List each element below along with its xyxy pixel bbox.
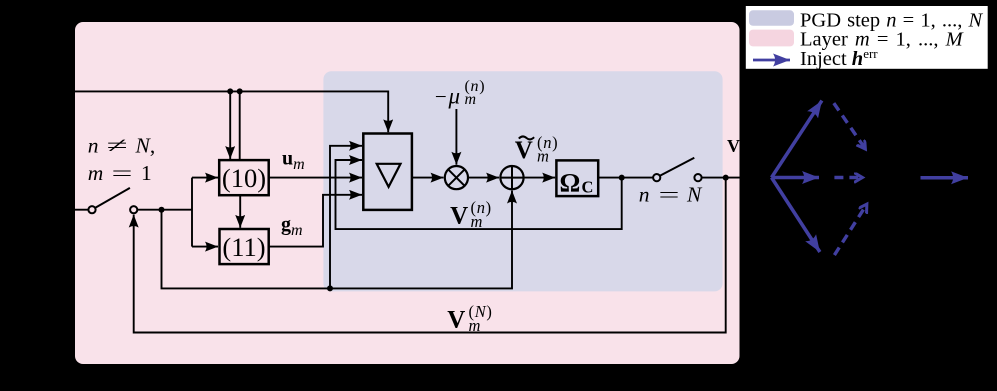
svg-text:n: n	[639, 182, 650, 206]
multiplier (x)	[445, 166, 468, 189]
blue fan: solid arrow mid	[772, 176, 820, 180]
svg-text:m: m	[88, 161, 104, 185]
svg-text:V: V	[515, 137, 533, 164]
wire: drop to (10) top plain	[239, 91, 241, 160]
svg-text:=: =	[659, 182, 680, 206]
svg-text:=: =	[112, 161, 133, 185]
svg-text:N,: N,	[135, 134, 156, 158]
nabla symbol	[377, 164, 401, 187]
blue fan: solid arrow down	[772, 178, 820, 253]
svg-text:V: V	[447, 307, 465, 334]
layer box (pink, Layer m=1..M)	[75, 22, 740, 364]
svg-text:≠: ≠	[107, 134, 128, 158]
wire: bottom feedback into nabla input 1	[330, 146, 362, 289]
node: output junction	[723, 175, 729, 181]
block (10)	[219, 160, 269, 195]
wire: output of switch S2	[702, 177, 745, 179]
svg-text:m: m	[465, 91, 477, 108]
node: junction on lower feedback	[327, 285, 333, 291]
wire: u_m from (10) into nabla input 3	[269, 177, 362, 179]
switch S2 contact b	[694, 174, 701, 181]
svg-text:V: V	[727, 136, 740, 156]
wire: switch b to branch riser	[137, 209, 192, 211]
svg-text:C: C	[582, 178, 594, 197]
block (11)	[220, 229, 269, 264]
wire: adder to projection	[524, 177, 556, 179]
wire: V^(N) outer feedback loop	[134, 178, 726, 333]
blue output arrow	[921, 176, 969, 180]
svg-text:N: N	[686, 182, 703, 206]
switch S2 contact a	[653, 174, 660, 181]
svg-text:(11): (11)	[222, 232, 265, 262]
svg-text:(10): (10)	[222, 163, 266, 193]
legend swatch Layer (pink)	[749, 30, 794, 47]
wire: lower feedback to adder	[162, 191, 513, 289]
wire: V-tilde feedback into nabla input 2	[336, 160, 622, 229]
wire: mu arrow into multiplier	[455, 109, 457, 165]
wire: nabla to multiplier	[412, 177, 444, 179]
switch S1 lever	[95, 188, 130, 208]
wire: branch riser for (10)/(11) inputs	[191, 178, 193, 247]
wire: g_m from (11) into nabla input 4	[269, 195, 362, 247]
legend swatch PGD (lavender)	[749, 10, 794, 25]
blue fan: dashed arrow from bottom	[834, 205, 866, 256]
node: junction after projection	[619, 175, 625, 181]
wire: (10) to (11) arrow	[239, 195, 241, 228]
svg-text:Ω: Ω	[560, 169, 581, 198]
legend box	[745, 5, 989, 69]
block nabla (gradient) U1	[363, 134, 412, 210]
blue fan: dashed arrow from top	[834, 103, 865, 149]
node: junction after switch S1	[159, 207, 165, 213]
wire: left input to switch	[75, 209, 88, 211]
wire: arrow into (10) left	[192, 177, 218, 179]
block Omega_C projection	[556, 160, 598, 196]
legend arrow inject	[753, 59, 790, 62]
svg-text:m: m	[471, 212, 483, 231]
wire: multiplier to adder	[468, 177, 499, 179]
svg-text:m: m	[469, 316, 481, 335]
svg-text:m: m	[537, 147, 549, 166]
node: junction dot on top line (left)	[227, 88, 233, 94]
switch S1 contact a	[88, 206, 95, 213]
wire: drop into (10) with arrow	[229, 91, 231, 159]
svg-text:V: V	[450, 203, 468, 230]
svg-text:1: 1	[141, 161, 152, 185]
wire: top input line into nabla	[75, 91, 388, 132]
adder (+)	[500, 166, 523, 189]
blue fan: dashed arrow mid	[834, 176, 862, 179]
PGD step box (lavender, n=1..N)	[323, 71, 722, 291]
switch S2 lever	[660, 158, 694, 176]
wire: arrow into (11) left	[192, 246, 218, 248]
wire: projection output to switch S2	[598, 177, 653, 179]
switch S1 contact b	[130, 206, 137, 213]
svg-text:− μ: − μ	[435, 84, 460, 109]
blue fan: solid arrow up	[772, 101, 822, 178]
svg-text:n: n	[88, 134, 99, 158]
node: junction dot on top line (right)	[237, 88, 243, 94]
